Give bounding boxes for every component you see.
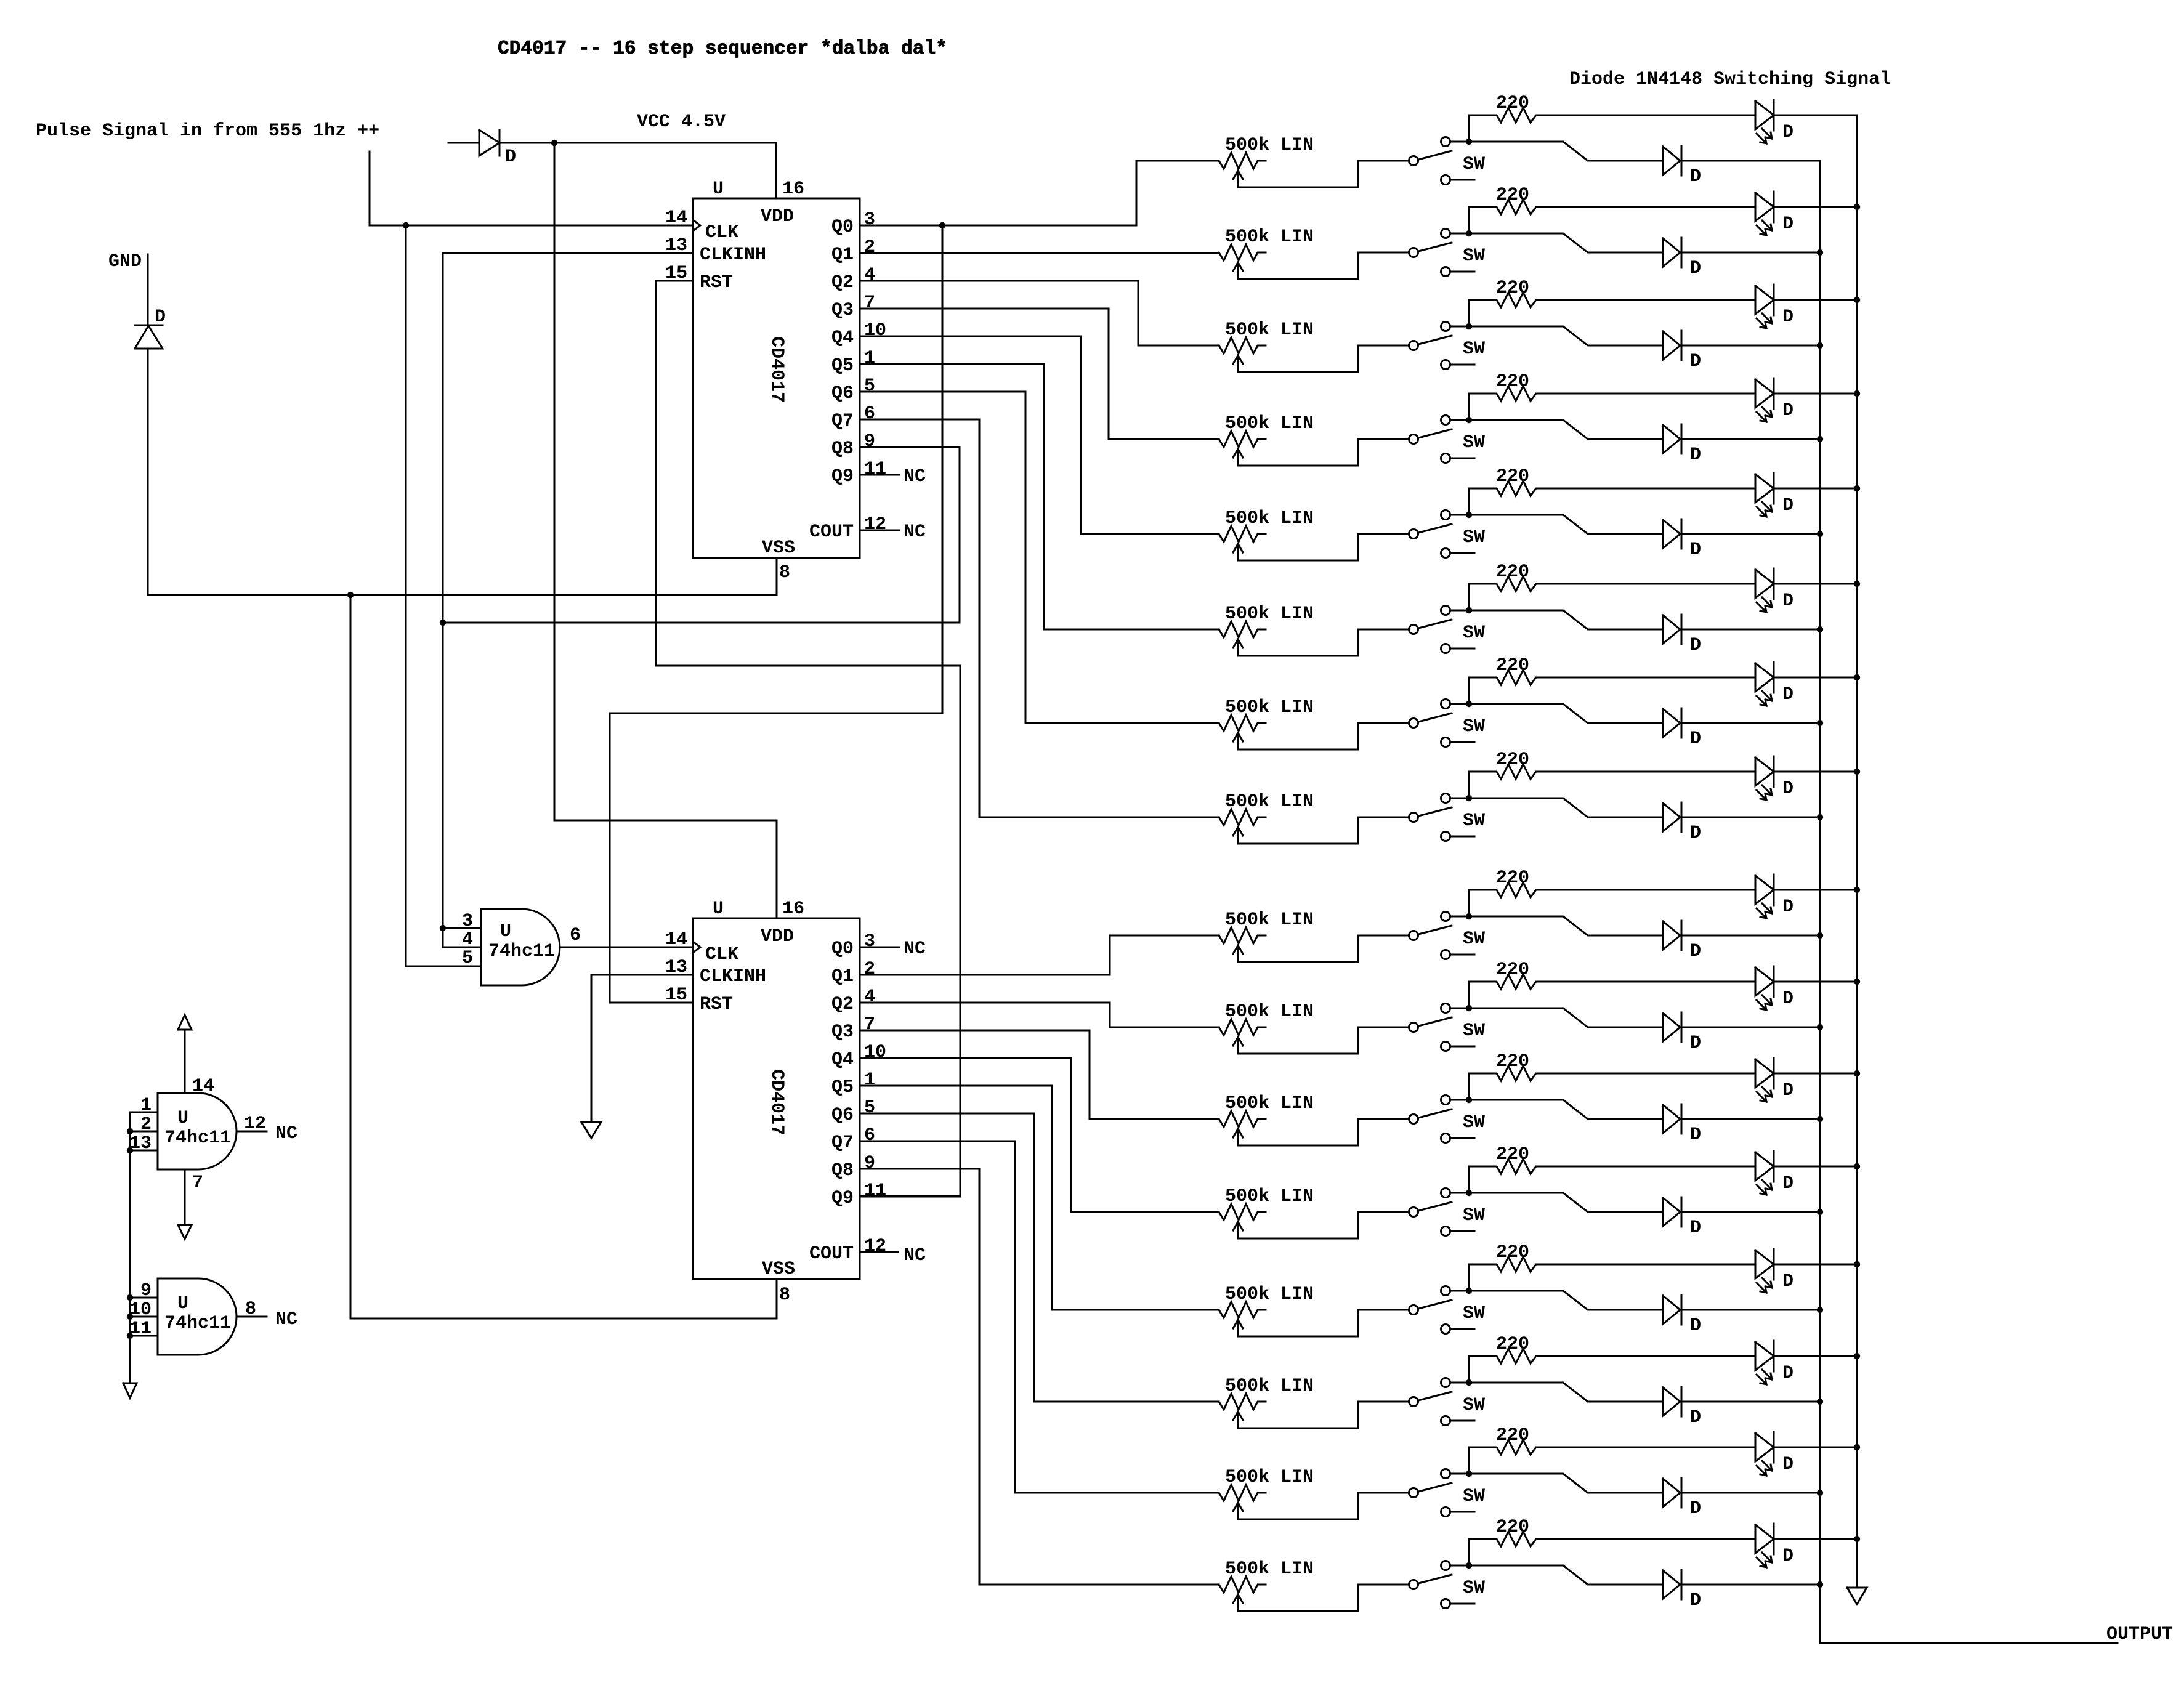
resistor 220 row 6 (1469, 562, 1755, 610)
wire CLK net to U1 pin 14 (370, 225, 693, 227)
wire U2 Q1 to row9 pot (860, 935, 1219, 975)
diode D (GND) (135, 307, 166, 349)
junction SW8 output (1466, 795, 1472, 801)
wire U1 Q1 to row2 pot (860, 252, 1219, 254)
ground arrow (LED bus) (1847, 1588, 1867, 1604)
pin Q9 of U2 (pin 11) (831, 1181, 886, 1209)
svg-text:D: D (1782, 1454, 1794, 1475)
wire R15 wiper to SW15 (1238, 1493, 1409, 1519)
pin 13 CLKINH of U1 (665, 235, 766, 265)
svg-text:Q4: Q4 (831, 1049, 854, 1070)
switch SW8 (1409, 794, 1486, 841)
svg-text:D: D (1782, 400, 1794, 421)
svg-text:D: D (1782, 684, 1794, 705)
junction SW7 output (1466, 701, 1472, 707)
junction SW10 output (1466, 1005, 1472, 1011)
junction U1 Q0 branch (939, 222, 945, 228)
svg-text:U: U (713, 899, 724, 919)
potentiometer R8 500k LIN (1219, 791, 1314, 844)
junction LED bus row 8 (1854, 769, 1860, 775)
wire diode row 13 to output bus (1681, 1309, 1820, 1311)
pin Q0 of U1 (pin 3) (831, 209, 875, 238)
potentiometer R16 500k LIN (1219, 1559, 1314, 1611)
svg-text:D: D (1782, 897, 1794, 918)
wire U5 output NC stub (pin 12) (237, 1113, 297, 1144)
wire LED row 4 to LED bus (1774, 393, 1857, 395)
wire U1 Q3 to row4 pot (860, 309, 1219, 439)
svg-text:7: 7 (864, 293, 875, 313)
junction CLK net (403, 222, 409, 228)
svg-text:5: 5 (864, 1097, 875, 1118)
junction SW1 output (1466, 139, 1472, 145)
wire diode row 16 to output bus (1681, 1584, 1820, 1586)
wire LED row 9 to LED bus (1774, 889, 1857, 891)
junction U5 pin13 (127, 1147, 133, 1153)
junction output bus row 6 (1817, 626, 1823, 632)
diode D row 16 (1N4148) (1663, 1570, 1701, 1611)
junction output bus row 12 (1817, 1209, 1823, 1215)
junction LED bus row 12 (1854, 1163, 1860, 1169)
wire LED row 6 to LED bus (1774, 583, 1857, 585)
wire SW16 to diode row 16 (1469, 1565, 1663, 1585)
wire GND label stub (147, 254, 149, 325)
svg-text:Q0: Q0 (831, 939, 854, 959)
junction output bus row 2 (1817, 249, 1823, 256)
wire U4 pin3 stub (443, 927, 481, 929)
svg-text:SW: SW (1463, 1395, 1485, 1416)
junction U6 pin9 (127, 1294, 133, 1301)
wire R7 wiper to SW7 (1238, 723, 1409, 749)
svg-text:D: D (1782, 122, 1794, 143)
potentiometer R14 500k LIN (1219, 1376, 1314, 1428)
wire U1 Q8 to U1 CLKINH (443, 447, 960, 623)
svg-text:9: 9 (140, 1280, 152, 1301)
wire R4 wiper to SW4 (1238, 439, 1409, 466)
wire U1 Q7 to row8 pot (860, 419, 1219, 817)
potentiometer R15 500k LIN (1219, 1467, 1314, 1519)
svg-text:D: D (1782, 988, 1794, 1009)
junction U6 pin10 (127, 1314, 133, 1320)
wire LED row 10 to LED bus (1774, 981, 1857, 983)
wire U2 Q2 to row10 pot (860, 1003, 1219, 1027)
wire diode row 2 to output bus (1681, 252, 1820, 254)
diode D row 5 (1N4148) (1663, 519, 1701, 560)
LED D row 14 (1755, 1341, 1794, 1384)
pin Q0 of U2 (pin 3) (831, 931, 875, 959)
pin 9 of U6 (130, 1280, 158, 1301)
pin Q5 of U1 (pin 1) (831, 348, 875, 376)
wire U2 CLKINH to ground arrow (591, 975, 693, 1122)
junction U5 pin2 (127, 1128, 133, 1134)
svg-text:1: 1 (140, 1095, 152, 1116)
wire R11 wiper to SW11 (1238, 1119, 1409, 1145)
wire diode row 11 to output bus (1681, 1118, 1820, 1120)
svg-text:3: 3 (864, 209, 875, 230)
svg-text:D: D (155, 307, 166, 328)
svg-text:12: 12 (244, 1113, 266, 1134)
svg-text:Q9: Q9 (831, 466, 854, 487)
LED D row 8 (1755, 756, 1794, 800)
svg-text:1: 1 (864, 1070, 875, 1091)
svg-text:500k LIN: 500k LIN (1225, 1186, 1314, 1207)
junction output bus row 15 (1817, 1490, 1823, 1496)
pin Q3 of U1 (pin 7) (831, 293, 875, 321)
svg-text:D: D (1690, 351, 1701, 372)
wire U2 VSS to GND (776, 1279, 778, 1318)
diode D row 7 (1N4148) (1663, 708, 1701, 749)
potentiometer R6 500k LIN (1219, 604, 1314, 656)
wire R12 wiper to SW12 (1238, 1212, 1409, 1238)
svg-text:D: D (1690, 258, 1701, 279)
pin Q6 of U2 (pin 5) (831, 1097, 875, 1126)
wire LED row 3 to LED bus (1774, 299, 1857, 301)
LED D row 13 (1755, 1249, 1794, 1293)
wire U4 output to U2 CLK (560, 947, 693, 948)
svg-text:D: D (1690, 941, 1701, 962)
svg-text:10: 10 (864, 320, 886, 341)
LED D row 4 (1755, 378, 1794, 422)
svg-text:D: D (1690, 1033, 1701, 1054)
switch SW15 (1409, 1469, 1486, 1517)
svg-text:SW: SW (1463, 432, 1485, 453)
svg-text:500k LIN: 500k LIN (1225, 791, 1314, 812)
wire U2 Q7 to row15 pot (860, 1141, 1219, 1493)
svg-text:D: D (1690, 1590, 1701, 1611)
resistor 220 row 1 (1469, 93, 1755, 142)
switch SW16 (1409, 1561, 1486, 1609)
svg-text:U: U (500, 921, 511, 942)
wire diode row 8 to output bus (1681, 817, 1820, 818)
op-amp U1 CD4017 body (693, 179, 860, 559)
svg-text:500k LIN: 500k LIN (1225, 1467, 1314, 1488)
wire U1 Q9 NC stub (860, 474, 899, 476)
wire GND vertical (147, 349, 149, 595)
svg-text:D: D (1690, 729, 1701, 749)
diode D row 1 (1N4148) (1663, 146, 1701, 187)
svg-text:2: 2 (864, 237, 875, 258)
diode D row 10 (1N4148) (1663, 1012, 1701, 1054)
wire VCC branch to U2 VDD (554, 143, 777, 918)
switch SW9 (1409, 912, 1486, 959)
svg-text:D: D (1690, 1315, 1701, 1336)
diode D row 6 (1N4148) (1663, 615, 1701, 656)
junction SW13 output (1466, 1288, 1472, 1294)
wire SW5 to diode row 5 (1469, 515, 1663, 534)
junction output bus row 11 (1817, 1116, 1823, 1122)
pin 15 RST of U2 (665, 985, 733, 1015)
junction SW15 output (1466, 1471, 1472, 1477)
wire R9 wiper to SW9 (1238, 935, 1409, 962)
LED D row 7 (1755, 662, 1794, 706)
svg-text:Q7: Q7 (831, 1133, 854, 1153)
wire LED cathode bus (1856, 115, 1858, 1588)
switch SW1 (1409, 137, 1486, 185)
junction output bus row 10 (1817, 1024, 1823, 1030)
svg-text:16: 16 (782, 899, 804, 919)
svg-text:500k LIN: 500k LIN (1225, 604, 1314, 624)
svg-text:2: 2 (140, 1114, 152, 1135)
svg-text:U: U (177, 1293, 188, 1314)
pin Q2 of U2 (pin 4) (831, 987, 875, 1015)
wire diode row 5 to output bus (1681, 533, 1820, 535)
junction SW12 output (1466, 1190, 1472, 1196)
potentiometer R11 500k LIN (1219, 1093, 1314, 1145)
svg-text:500k LIN: 500k LIN (1225, 1284, 1314, 1305)
LED D row 16 (1755, 1524, 1794, 1567)
wire R13 wiper to SW13 (1238, 1310, 1409, 1336)
switch SW14 (1409, 1378, 1486, 1426)
wire diode row 7 to output bus (1681, 722, 1820, 724)
svg-text:Q2: Q2 (831, 994, 854, 1015)
switch SW4 (1409, 416, 1486, 463)
svg-text:500k LIN: 500k LIN (1225, 508, 1314, 529)
svg-text:5: 5 (462, 948, 473, 969)
junction output bus row 16 (1817, 1581, 1823, 1588)
svg-text:500k LIN: 500k LIN (1225, 227, 1314, 248)
junction LED bus row 5 (1854, 485, 1860, 491)
svg-text:NC: NC (275, 1123, 297, 1144)
resistor 220 row 9 (1469, 868, 1755, 916)
pin Q7 of U2 (pin 6) (831, 1125, 875, 1153)
svg-text:D: D (1690, 635, 1701, 656)
wire SW14 to diode row 14 (1469, 1383, 1663, 1402)
junction LED bus row 14 (1854, 1353, 1860, 1359)
svg-text:D: D (1690, 445, 1701, 466)
potentiometer R7 500k LIN (1219, 697, 1314, 749)
junction LED bus row 2 (1854, 204, 1860, 210)
junction SW9 output (1466, 913, 1472, 919)
wire diode row 12 to output bus (1681, 1211, 1820, 1213)
svg-text:4: 4 (462, 929, 473, 950)
svg-text:9: 9 (864, 431, 875, 452)
junction LED bus row 7 (1854, 674, 1860, 680)
wire SW3 to diode row 3 (1469, 326, 1663, 345)
junction LED bus row 11 (1854, 1070, 1860, 1076)
diode D (VCC feed) (448, 130, 516, 168)
svg-text:D: D (1782, 1271, 1794, 1292)
wire U2 Q5 to row13 pot (860, 1086, 1219, 1310)
svg-text:Q9: Q9 (831, 1188, 854, 1209)
wire LED row 14 to LED bus (1774, 1355, 1857, 1357)
svg-text:500k LIN: 500k LIN (1225, 1376, 1314, 1397)
wire R5 wiper to SW5 (1238, 534, 1409, 560)
pin COUT of U1 (pin 12) (809, 514, 886, 543)
svg-text:NC: NC (904, 1245, 926, 1266)
svg-text:5: 5 (864, 376, 875, 397)
switch SW12 (1409, 1189, 1486, 1236)
wire diode row 6 to output bus (1681, 629, 1820, 631)
wire LED row 8 to LED bus (1774, 771, 1857, 773)
svg-text:12: 12 (864, 514, 886, 535)
wire U1 Q5 to row6 pot (860, 364, 1219, 629)
svg-text:500k LIN: 500k LIN (1225, 1093, 1314, 1114)
wire SW13 to diode row 13 (1469, 1291, 1663, 1310)
svg-text:CD4017: CD4017 (766, 1069, 787, 1136)
svg-text:9: 9 (864, 1153, 875, 1174)
junction output bus row 14 (1817, 1399, 1823, 1405)
LED D row 1 (1755, 100, 1794, 143)
svg-text:SW: SW (1463, 1486, 1485, 1507)
wire U1 RST net from U2 Q9 (656, 281, 960, 1196)
svg-text:RST: RST (700, 272, 733, 293)
wire LED row 12 to LED bus (1774, 1166, 1857, 1168)
pin Q1 of U2 (pin 2) (831, 959, 875, 987)
pin 14 CLK of U2 (665, 929, 738, 965)
svg-text:500k LIN: 500k LIN (1225, 910, 1314, 931)
wire U1 COUT NC stub (860, 530, 899, 531)
svg-text:CLK: CLK (705, 944, 738, 965)
wire R3 wiper to SW3 (1238, 345, 1409, 372)
junction LED bus row 16 (1854, 1536, 1860, 1542)
svg-text:VDD: VDD (761, 926, 794, 947)
svg-text:D: D (1782, 307, 1794, 328)
wire R16 wiper to SW16 (1238, 1585, 1409, 1611)
svg-text:CLKINH: CLKINH (700, 966, 766, 987)
op-amp U5 74hc11 AND gate body (158, 1093, 237, 1169)
svg-text:VCC 4.5V: VCC 4.5V (637, 111, 726, 132)
svg-text:CLK: CLK (705, 222, 738, 243)
pin Q8 of U1 (pin 9) (831, 431, 875, 459)
svg-text:SW: SW (1463, 623, 1485, 644)
svg-text:16: 16 (782, 179, 804, 200)
svg-text:COUT: COUT (809, 1243, 854, 1264)
junction output bus row 9 (1817, 932, 1823, 939)
wire U2 Q3 to row11 pot (860, 1030, 1219, 1119)
LED D row 11 (1755, 1058, 1794, 1102)
svg-text:D: D (1782, 778, 1794, 799)
wire SW10 to diode row 10 (1469, 1008, 1663, 1027)
LED D row 2 (1755, 192, 1794, 235)
svg-text:D: D (1690, 1125, 1701, 1145)
svg-text:SW: SW (1463, 1578, 1485, 1599)
resistor 220 row 13 (1469, 1242, 1755, 1291)
LED D row 10 (1755, 966, 1794, 1010)
wire R14 wiper to SW14 (1238, 1402, 1409, 1428)
wire R10 wiper to SW10 (1238, 1027, 1409, 1054)
diode D row 15 (1N4148) (1663, 1478, 1701, 1519)
wire LED row 1 to LED bus (1774, 115, 1857, 116)
wire CLK net branch down to U4 pin 5 (406, 225, 481, 966)
resistor 220 row 5 (1469, 466, 1755, 515)
potentiometer R9 500k LIN (1219, 910, 1314, 962)
diode D row 11 (1N4148) (1663, 1104, 1701, 1145)
svg-text:14: 14 (665, 929, 687, 950)
op-amp U2 CD4017 body (693, 899, 860, 1280)
svg-text:74hc11: 74hc11 (488, 941, 555, 962)
svg-text:NC: NC (904, 466, 926, 487)
pin Q5 of U2 (pin 1) (831, 1070, 875, 1098)
wire output bus (1820, 161, 2117, 1643)
wire SW2 to diode row 2 (1469, 233, 1663, 252)
wire U5/U6 input tie vertical (129, 1112, 131, 1383)
wire GND bus horizontal (148, 594, 777, 596)
wire SW8 to diode row 8 (1469, 798, 1663, 817)
wire SW9 to diode row 9 (1469, 916, 1663, 935)
svg-text:D: D (1782, 1546, 1794, 1567)
svg-text:U: U (177, 1108, 188, 1129)
svg-text:SW: SW (1463, 929, 1485, 950)
junction SW2 output (1466, 230, 1472, 236)
svg-text:CD4017: CD4017 (766, 336, 787, 403)
pin Q4 of U2 (pin 10) (831, 1042, 886, 1070)
wire U1 Q0 branch to U2 RST (610, 225, 942, 1003)
svg-text:Q6: Q6 (831, 1105, 854, 1126)
svg-text:Q1: Q1 (831, 244, 854, 265)
svg-text:500k LIN: 500k LIN (1225, 1559, 1314, 1580)
svg-text:74hc11: 74hc11 (164, 1128, 231, 1149)
svg-text:SW: SW (1463, 527, 1485, 548)
svg-text:12: 12 (864, 1236, 886, 1257)
junction output bus row 3 (1817, 342, 1823, 349)
svg-text:500k LIN: 500k LIN (1225, 1001, 1314, 1022)
wire LED row 15 to LED bus (1774, 1447, 1857, 1448)
junction SW3 output (1466, 323, 1472, 329)
diode D row 2 (1N4148) (1663, 238, 1701, 279)
pin 13 of U5 (129, 1133, 158, 1154)
potentiometer R1 500k LIN (1219, 135, 1314, 187)
junction SW14 output (1466, 1379, 1472, 1386)
svg-text:CLKINH: CLKINH (700, 244, 766, 265)
svg-text:SW: SW (1463, 339, 1485, 360)
svg-text:NC: NC (904, 939, 926, 959)
pin 15 RST of U1 (665, 263, 733, 293)
svg-text:SW: SW (1463, 1112, 1485, 1133)
svg-text:6: 6 (864, 1125, 875, 1146)
svg-text:4: 4 (864, 265, 875, 286)
wire SW4 to diode row 4 (1469, 420, 1663, 439)
svg-text:4: 4 (864, 987, 875, 1008)
wire U1 Q2 to row3 pot (860, 281, 1219, 345)
junction SW6 output (1466, 607, 1472, 613)
svg-text:D: D (1690, 1407, 1701, 1428)
svg-text:SW: SW (1463, 154, 1485, 175)
wire diode row 14 to output bus (1681, 1401, 1820, 1403)
ground arrow (U2 CLKINH) (581, 1122, 601, 1138)
potentiometer R2 500k LIN (1219, 227, 1314, 279)
svg-text:D: D (1782, 591, 1794, 612)
svg-text:CD4017 -- 16 step sequencer *d: CD4017 -- 16 step sequencer *dalba dal* (498, 38, 947, 60)
wire R2 wiper to SW2 (1238, 252, 1409, 279)
svg-text:11: 11 (864, 1181, 886, 1201)
svg-text:RST: RST (700, 994, 733, 1015)
wire diode row 15 to output bus (1681, 1492, 1820, 1494)
diode D row 8 (1N4148) (1663, 802, 1701, 844)
op-amp U4 74hc11 AND gate body (481, 909, 560, 985)
switch SW11 (1409, 1096, 1486, 1143)
diode D row 13 (1N4148) (1663, 1295, 1701, 1336)
wire SW15 to diode row 15 (1469, 1474, 1663, 1493)
LED D row 9 (1755, 874, 1794, 918)
wire R6 wiper to SW6 (1238, 629, 1409, 656)
pin Q6 of U1 (pin 5) (831, 376, 875, 404)
svg-text:D: D (505, 147, 516, 168)
resistor 220 row 16 (1469, 1517, 1755, 1565)
svg-text:7: 7 (192, 1173, 203, 1193)
wire VCC to U1 VDD (499, 143, 776, 198)
pin Q9 of U1 (pin 11) (831, 459, 886, 487)
switch SW10 (1409, 1004, 1486, 1051)
svg-text:SW: SW (1463, 1303, 1485, 1324)
pin 13 CLKINH of U2 (665, 957, 766, 987)
svg-text:D: D (1782, 1080, 1794, 1101)
potentiometer R12 500k LIN (1219, 1186, 1314, 1238)
diode D row 14 (1N4148) (1663, 1387, 1701, 1428)
junction output bus row 13 (1817, 1307, 1823, 1313)
svg-text:D: D (1690, 166, 1701, 187)
svg-text:GND: GND (108, 251, 142, 272)
resistor 220 row 14 (1469, 1334, 1755, 1383)
wire diode row 4 to output bus (1681, 438, 1820, 440)
